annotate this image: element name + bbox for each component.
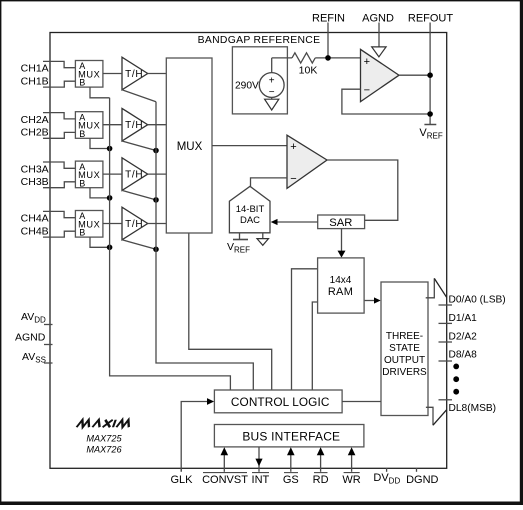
svg-text:B: B bbox=[79, 228, 85, 238]
svg-text:BANDGAP REFERENCE: BANDGAP REFERENCE bbox=[198, 35, 321, 46]
svg-text:INT: INT bbox=[252, 474, 270, 486]
svg-text:STATE: STATE bbox=[389, 343, 420, 354]
svg-text:MAX726: MAX726 bbox=[86, 445, 122, 455]
svg-text:CH1A: CH1A bbox=[21, 63, 49, 75]
svg-text:DGND: DGND bbox=[406, 474, 438, 486]
svg-text:+: + bbox=[269, 76, 275, 87]
svg-text:AGND: AGND bbox=[362, 13, 394, 25]
svg-text:GLK: GLK bbox=[170, 474, 193, 486]
svg-text:WR: WR bbox=[342, 474, 360, 486]
svg-text:+: + bbox=[290, 141, 296, 153]
svg-text:CH4B: CH4B bbox=[21, 225, 49, 237]
svg-text:290V: 290V bbox=[235, 81, 259, 92]
svg-text:CONTROL LOGIC: CONTROL LOGIC bbox=[231, 395, 330, 409]
svg-text:B: B bbox=[79, 78, 85, 88]
svg-text:DL8(MSB): DL8(MSB) bbox=[449, 403, 497, 414]
svg-text:CONVST: CONVST bbox=[202, 474, 248, 486]
svg-text:B: B bbox=[79, 129, 85, 139]
svg-text:GS: GS bbox=[283, 474, 299, 486]
svg-text:MUX: MUX bbox=[177, 141, 203, 153]
svg-text:CH2A: CH2A bbox=[21, 114, 49, 126]
svg-text:T/H: T/H bbox=[125, 120, 143, 131]
svg-text:CH2B: CH2B bbox=[21, 127, 49, 139]
svg-text:CH1B: CH1B bbox=[21, 75, 49, 87]
svg-text:T/H: T/H bbox=[125, 69, 143, 80]
svg-text:14-BIT: 14-BIT bbox=[236, 204, 265, 215]
svg-text:D1/A1: D1/A1 bbox=[449, 313, 478, 324]
svg-text:D8/A8: D8/A8 bbox=[449, 350, 478, 361]
svg-text:D0/A0 (LSB): D0/A0 (LSB) bbox=[449, 295, 506, 306]
svg-text:−: − bbox=[290, 173, 296, 185]
svg-text:OUTPUT: OUTPUT bbox=[384, 355, 425, 366]
svg-text:BUS INTERFACE: BUS INTERFACE bbox=[242, 429, 340, 443]
svg-text:SAR: SAR bbox=[329, 217, 352, 229]
svg-text:DRIVERS: DRIVERS bbox=[382, 367, 427, 378]
svg-text:AGND: AGND bbox=[15, 332, 46, 344]
svg-text:MAX725: MAX725 bbox=[86, 434, 122, 444]
svg-text:D2/A2: D2/A2 bbox=[449, 332, 478, 343]
svg-text:RD: RD bbox=[313, 474, 329, 486]
svg-text:−: − bbox=[364, 85, 370, 97]
svg-text:10K: 10K bbox=[299, 65, 318, 77]
svg-text:−: − bbox=[269, 87, 275, 98]
svg-text:14x4: 14x4 bbox=[330, 275, 352, 286]
svg-text:B: B bbox=[79, 178, 85, 188]
svg-text:CH3A: CH3A bbox=[21, 163, 49, 175]
svg-text:+: + bbox=[364, 56, 370, 68]
svg-text:THREE-: THREE- bbox=[386, 331, 423, 342]
svg-text:T/H: T/H bbox=[125, 170, 143, 181]
svg-text:DAC: DAC bbox=[240, 215, 260, 226]
svg-text:T/H: T/H bbox=[125, 219, 143, 230]
svg-text:CH4A: CH4A bbox=[21, 213, 49, 225]
svg-text:CH3B: CH3B bbox=[21, 176, 49, 188]
svg-text:RAM: RAM bbox=[328, 286, 353, 298]
